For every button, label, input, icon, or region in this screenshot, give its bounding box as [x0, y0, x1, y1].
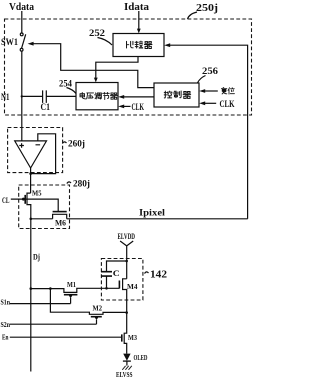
svg-text:CLK: CLK	[132, 102, 145, 112]
svg-text:Idata: Idata	[124, 2, 149, 13]
svg-text:N1: N1	[1, 92, 10, 102]
svg-text:SW1: SW1	[1, 37, 18, 47]
svg-text:M6: M6	[55, 218, 66, 228]
svg-text:C: C	[113, 268, 120, 278]
svg-text:C1: C1	[41, 102, 51, 112]
svg-text:S2n: S2n	[1, 320, 11, 329]
svg-text:OLED: OLED	[134, 353, 148, 362]
svg-text:CL: CL	[2, 195, 10, 205]
svg-text:CLK: CLK	[220, 99, 235, 109]
svg-text:ELVSS: ELVSS	[116, 371, 133, 379]
svg-text:M4: M4	[127, 282, 138, 291]
svg-text:M3: M3	[128, 333, 137, 342]
svg-text:M2: M2	[93, 304, 103, 313]
svg-text:M1: M1	[67, 280, 76, 289]
svg-text:280j: 280j	[73, 179, 90, 189]
svg-text:Ipixel: Ipixel	[139, 208, 166, 218]
svg-text:256: 256	[202, 66, 219, 76]
svg-text:250j: 250j	[196, 3, 218, 14]
svg-text:252: 252	[89, 28, 106, 38]
svg-text:254: 254	[59, 79, 72, 89]
svg-text:En: En	[2, 333, 9, 342]
svg-text:142: 142	[150, 270, 167, 281]
svg-text:Dj: Dj	[33, 252, 40, 262]
svg-text:M5: M5	[32, 189, 42, 198]
svg-text:S1n: S1n	[1, 298, 11, 307]
svg-text:260j: 260j	[68, 139, 85, 149]
svg-text:ELVDD: ELVDD	[118, 231, 136, 241]
